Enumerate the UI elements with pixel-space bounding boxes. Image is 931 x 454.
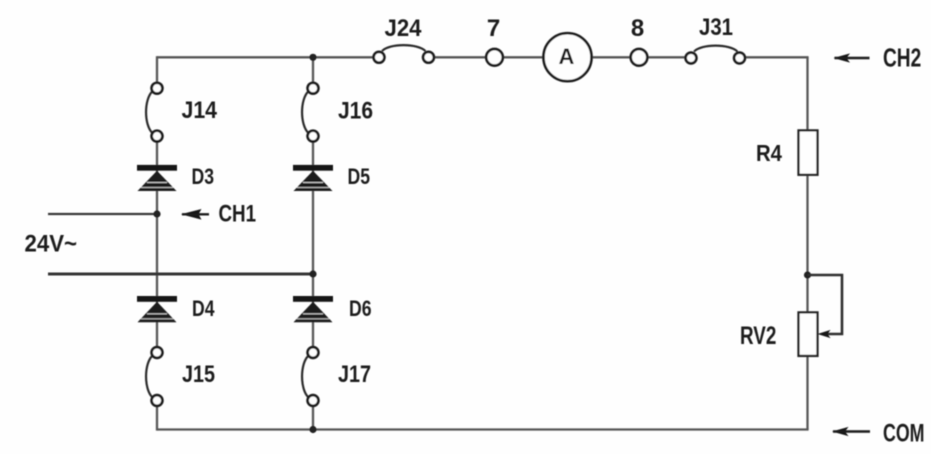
diode D5: [293, 164, 370, 191]
jumper J17: [302, 347, 371, 406]
svg-text:D6: D6: [349, 296, 372, 321]
svg-text:RV2: RV2: [740, 322, 776, 350]
junction dot CH1 node: [153, 210, 160, 217]
diode D4: [137, 296, 215, 322]
svg-text:J16: J16: [338, 98, 373, 125]
wire branch1 J14-to-CH1 node (through D3): [156, 136, 158, 214]
wire top rail left segment: [157, 56, 379, 58]
wire branch1 CH1-node to J15 (through D4, crossing AC2 line): [156, 214, 158, 353]
svg-text:R4: R4: [756, 140, 782, 166]
svg-text:A: A: [559, 44, 575, 69]
wire 24V source lower lead to branch2 AC2 node: [48, 273, 313, 276]
wire branch1 bottom (J15 to bottom rail): [156, 401, 158, 431]
svg-text:J17: J17: [338, 361, 371, 388]
svg-text:D4: D4: [192, 296, 215, 321]
svg-text:CH1: CH1: [219, 200, 257, 227]
jumper J24: [374, 15, 434, 63]
wire RV2 wiper loop: [808, 275, 843, 334]
svg-text:D3: D3: [192, 164, 215, 189]
svg-text:8: 8: [631, 15, 644, 42]
jumper J14: [146, 83, 218, 142]
diode D3: [137, 164, 214, 191]
junction dot RV2 wiper tap: [804, 271, 811, 278]
node 8: [631, 15, 648, 66]
svg-text:J24: J24: [385, 15, 423, 42]
wire top rail middle segment: [429, 56, 692, 58]
node COM arrow: [832, 419, 925, 447]
wire branch2 bottom (J17 to bottom rail): [312, 401, 314, 430]
svg-text:D5: D5: [348, 164, 371, 189]
wire branch1 top (rail to J14): [156, 56, 158, 88]
node CH1 arrow: [181, 200, 256, 227]
node 7: [486, 15, 503, 66]
wire 24V source upper lead to CH1 node: [48, 213, 157, 215]
wire right rail: [806, 57, 808, 429]
potentiometer RV2: [740, 312, 831, 356]
jumper J16: [302, 83, 373, 142]
wire branch2 top (rail to J16): [312, 57, 314, 88]
svg-text:J14: J14: [182, 97, 218, 124]
wire bottom rail: [157, 428, 809, 430]
node CH2 arrow: [834, 45, 922, 73]
svg-text:COM: COM: [883, 419, 925, 447]
wire top rail right segment: [740, 56, 809, 58]
svg-text:J15: J15: [182, 361, 215, 388]
junction dot AC2 / branch2: [309, 270, 316, 277]
svg-text:7: 7: [487, 15, 500, 42]
diode D6: [293, 296, 372, 322]
jumper J31: [686, 14, 745, 63]
svg-text:CH2: CH2: [883, 45, 921, 73]
jumper J15: [146, 347, 215, 406]
wire branch2 J16-to-AC2 node (through D5): [312, 136, 314, 274]
svg-text:24V~: 24V~: [25, 231, 78, 258]
ammeter A: [544, 33, 592, 81]
junction dot bottom rail / branch2: [309, 426, 316, 433]
svg-text:J31: J31: [699, 14, 733, 41]
wire branch2 AC2-node to J17 (through D6): [312, 274, 314, 353]
junction dot top rail / branch2: [309, 54, 316, 61]
resistor R4: [756, 130, 818, 174]
